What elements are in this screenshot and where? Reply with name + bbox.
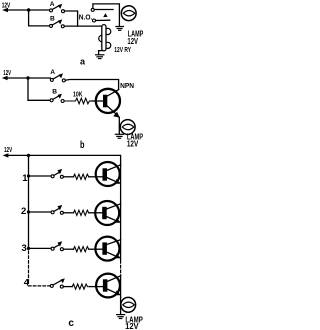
node junction c (27, 154, 30, 157)
transistor Q2 (circuit c) (95, 201, 121, 225)
wire switch1 to resistor1 (63, 176, 73, 178)
wire row2 (29, 211, 52, 213)
wire to relay coil (64, 25, 102, 27)
wire contact to lamp net (93, 4, 120, 26)
svg-text:12V: 12V (125, 321, 139, 330)
wire left bus c dashed (29, 251, 51, 286)
wire branch to B b (28, 78, 50, 100)
wire branch to B a (29, 10, 50, 26)
wire emitter to lamp b (118, 117, 120, 134)
transistor Q4 (circuit c) (96, 274, 121, 298)
svg-text:12V: 12V (4, 145, 12, 154)
relay contact moving terminal (93, 19, 96, 22)
wire row1 (29, 175, 52, 177)
resistor row4 (72, 284, 87, 289)
relay armature arm (96, 19, 110, 21)
svg-text:4: 4 (24, 277, 30, 288)
wire switch3 to resistor3 (63, 248, 73, 250)
arrow 12V feed a (2, 8, 8, 12)
switch A (circuit a) (50, 1, 65, 13)
wire 12V rail b (6, 77, 50, 79)
switch B (circuit b) (50, 89, 64, 103)
svg-text:N.O.: N.O. (79, 13, 93, 22)
relay coil 12V RY (99, 25, 111, 51)
svg-text:12V RY: 12V RY (114, 47, 131, 54)
svg-text:12V: 12V (127, 37, 138, 46)
svg-text:12V: 12V (127, 139, 139, 148)
transistor Q3 (circuit c) (95, 237, 121, 261)
lamp c (121, 297, 136, 312)
switch B (circuit a) (50, 15, 65, 28)
arrow 12V feed c (3, 153, 9, 157)
wire switch2 to resistor2 (63, 212, 73, 214)
svg-text:12V: 12V (3, 68, 11, 77)
transistor Q1 (circuit b) NPN (96, 89, 120, 118)
resistor row3 (73, 247, 88, 252)
relay contact fixed bar (94, 9, 113, 11)
svg-text:3: 3 (22, 243, 27, 254)
ground lamp b (115, 134, 123, 138)
switch 4 (50, 278, 65, 288)
wire coil to ground (99, 51, 102, 54)
node junction b (26, 76, 29, 79)
wire base row1 (89, 176, 103, 178)
resistor row2 (73, 210, 88, 215)
svg-text:1: 1 (22, 173, 28, 184)
wire base row3 (89, 248, 103, 250)
svg-text:A: A (50, 1, 55, 8)
svg-text:NPN: NPN (120, 81, 134, 90)
wire base row4 (89, 286, 103, 288)
relay contact fixed terminal (91, 8, 94, 11)
wire base b (91, 100, 103, 102)
node row3 (27, 247, 30, 250)
switch 3 (51, 241, 63, 250)
switch 2 (51, 205, 63, 214)
right rail c lower (120, 275, 122, 297)
wire 12V top rail c (7, 155, 121, 164)
transistor Q1 (circuit c) (96, 162, 121, 186)
wire A to collector (65, 80, 118, 90)
svg-text:12V: 12V (2, 1, 11, 10)
svg-text:b: b (80, 140, 85, 151)
switch 1 (51, 169, 63, 178)
wire left bus c solid (28, 155, 30, 249)
svg-text:B: B (52, 89, 57, 96)
svg-text:A: A (50, 69, 55, 76)
wire rail to ground c (120, 297, 122, 314)
wire row3 (29, 247, 52, 249)
svg-text:c: c (68, 318, 74, 329)
ground lamp c (117, 315, 125, 319)
lamp a (121, 6, 136, 21)
right rail c upper (120, 164, 122, 259)
wire 12V rail a (7, 9, 51, 11)
node row1 (27, 174, 30, 177)
ground relay coil (96, 55, 104, 59)
wire switch4 to resistor4 (63, 286, 72, 288)
node row2 (27, 210, 30, 213)
wire base row2 (89, 212, 103, 214)
resistor 10K (64, 98, 89, 104)
lamp b (120, 120, 135, 135)
node junction a (27, 8, 30, 11)
arrow 12V feed b (2, 76, 8, 80)
right rail c dashed (120, 261, 122, 276)
svg-text:2: 2 (21, 206, 26, 217)
svg-text:B: B (50, 15, 55, 22)
ground lamp a (116, 27, 124, 31)
switch A (circuit b) (50, 69, 65, 82)
wire A output down to B line (65, 11, 78, 26)
resistor row1 (73, 174, 88, 179)
armature arrowhead (103, 13, 107, 17)
